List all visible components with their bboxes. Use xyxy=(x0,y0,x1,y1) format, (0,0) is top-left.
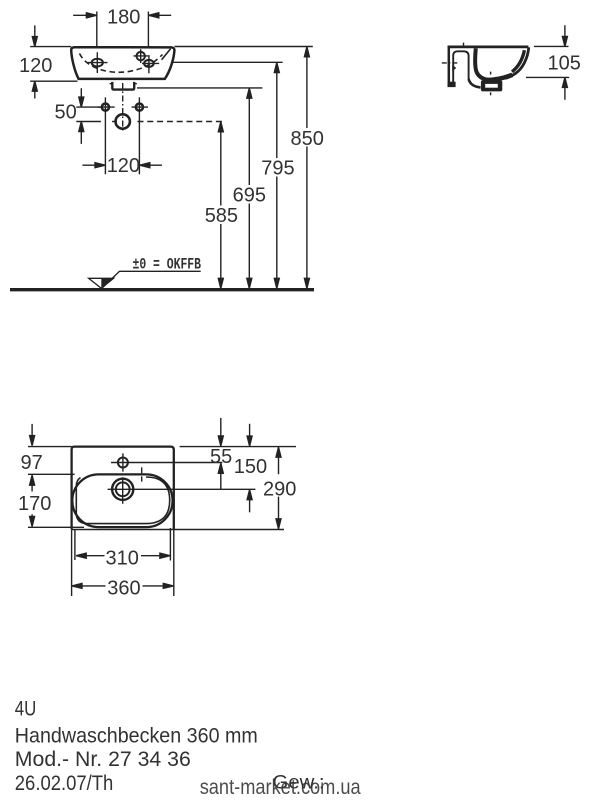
plan drain cross + 150 reference line xyxy=(108,477,256,504)
side trap underside curve xyxy=(469,79,481,87)
svg-text:180: 180 xyxy=(107,7,140,29)
SIDE VIEW xyxy=(442,25,581,100)
floor line xyxy=(10,288,314,291)
svg-text:290: 290 xyxy=(263,479,296,501)
reference line 695 level xyxy=(137,87,262,89)
FOOTER TEXT xyxy=(15,698,325,795)
height line 585 xyxy=(218,122,223,288)
svg-text:850: 850 xyxy=(291,128,324,150)
side front wall outer xyxy=(505,47,529,78)
height line 850 xyxy=(304,47,309,288)
mounting hole left cross + extension xyxy=(98,97,115,174)
side back wall hollow xyxy=(453,51,468,83)
svg-text:170: 170 xyxy=(18,493,51,515)
basin front outline xyxy=(71,47,174,79)
svg-text:310: 310 xyxy=(106,547,139,569)
side drain centerline ticks xyxy=(490,72,492,96)
dimension 360 xyxy=(72,578,173,600)
side back wall outer edge xyxy=(448,46,451,87)
dimension 105 xyxy=(526,25,581,100)
svg-text:695: 695 xyxy=(233,185,266,207)
plan top reference line right xyxy=(180,446,296,448)
dimension 180 xyxy=(73,7,171,48)
svg-text:585: 585 xyxy=(205,205,238,227)
PLAN VIEW xyxy=(18,418,296,600)
height line 795 xyxy=(274,63,279,289)
svg-text:55: 55 xyxy=(210,446,232,468)
label 795 xyxy=(260,158,297,180)
right hole ellipse xyxy=(144,60,154,67)
dimension 150 xyxy=(234,424,267,513)
reference line 585 level dashed xyxy=(138,121,225,123)
drain hole left tick xyxy=(112,121,117,123)
plan basin bottom + 290 reference line xyxy=(72,529,284,531)
height line 695 xyxy=(247,88,252,288)
svg-text:50: 50 xyxy=(55,102,77,124)
svg-text:4U: 4U xyxy=(15,698,37,721)
dimension 97 xyxy=(21,424,43,492)
mounting hole right xyxy=(136,104,143,111)
plan top reference line left xyxy=(28,446,72,448)
side drain stub window xyxy=(485,84,498,88)
svg-text:120: 120 xyxy=(107,155,140,177)
plan basin outline xyxy=(72,447,174,530)
side bowl floor band xyxy=(483,75,512,80)
side back wall foot xyxy=(448,82,456,87)
centerline vertical dash-dot xyxy=(122,83,124,132)
side fixing hook xyxy=(452,65,456,72)
dimension 50 xyxy=(55,88,102,144)
inner bowl dashed arc xyxy=(80,54,163,73)
dimension 55 xyxy=(210,418,232,489)
drain stub front xyxy=(112,82,134,90)
plan drain outer xyxy=(112,479,133,500)
right hole ellipse cross xyxy=(142,55,159,73)
reference line 850 level xyxy=(175,46,313,48)
datum leader line xyxy=(102,271,201,288)
svg-text:150: 150 xyxy=(234,456,267,478)
dimension 310 xyxy=(75,528,170,569)
plan bowl-bottom reference line left xyxy=(28,526,84,528)
plan bowl inner line xyxy=(76,477,169,524)
drain stub lips xyxy=(110,83,137,85)
svg-text:360: 360 xyxy=(107,578,140,600)
datum triangle filled half xyxy=(101,278,113,288)
dimension 120 lower xyxy=(82,155,161,177)
svg-text:Gew.:: Gew.: xyxy=(273,772,325,794)
svg-text:105: 105 xyxy=(548,53,581,75)
plan right extension 360 xyxy=(173,529,175,596)
svg-text:26.02.07/Th: 26.02.07/Th xyxy=(15,772,114,795)
mounting hole left xyxy=(102,104,109,111)
tap hole left cross xyxy=(88,52,108,73)
plan drain inner xyxy=(116,482,130,496)
side bowl back wall curve xyxy=(475,48,491,80)
tap hole left ellipse xyxy=(92,59,103,67)
dimension 290 xyxy=(263,447,296,529)
right hole circle xyxy=(137,52,145,60)
plan tap hole xyxy=(118,458,128,468)
svg-text:Mod.- Nr. 27 34 36: Mod.- Nr. 27 34 36 xyxy=(15,748,191,771)
mounting hole right cross + extension xyxy=(132,97,148,174)
right hole circle cross xyxy=(134,49,149,63)
label 695 xyxy=(232,185,269,207)
reference line 795 level xyxy=(171,61,282,63)
drain hole circle xyxy=(116,114,130,128)
svg-text:795: 795 xyxy=(261,158,294,180)
label 585 xyxy=(204,205,241,227)
side rim top edge xyxy=(448,46,529,49)
side drain stub xyxy=(481,80,502,91)
dimension 170 xyxy=(18,493,51,526)
plan bowl-top reference line left xyxy=(28,473,75,475)
plan tap hole cross + 55 reference line xyxy=(111,453,222,471)
side tap centerline tick xyxy=(463,43,465,46)
side fixing centerline dash-dot xyxy=(442,62,458,64)
plan bowl outer stadium xyxy=(72,474,172,527)
svg-text:120: 120 xyxy=(19,55,52,77)
svg-text:97: 97 xyxy=(21,452,43,474)
side front wall inner xyxy=(512,50,524,72)
plan left extension 360 xyxy=(71,529,73,596)
dimension 120 upper xyxy=(19,25,78,98)
plan dash-dot mark xyxy=(141,467,143,481)
svg-text:Handwaschbecken 360 mm: Handwaschbecken 360 mm xyxy=(15,724,258,747)
inner bowl right solid edge xyxy=(162,49,171,60)
datum triangle xyxy=(89,278,114,288)
label 850 xyxy=(290,128,327,150)
